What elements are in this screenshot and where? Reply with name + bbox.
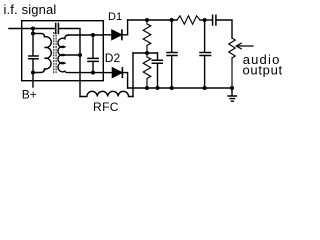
wire i.f. input (9, 28, 55, 30)
node dot rail C6 (203, 86, 207, 90)
wire RFC right riser to midpoint (132, 53, 134, 97)
svg-text:D2: D2 (105, 51, 121, 65)
node dot center tap / C2 (78, 53, 82, 57)
wire secondary center tap (65, 54, 80, 56)
capacitor C6 (204, 20, 206, 52)
wire primary top lead (33, 34, 45, 37)
node dot C3 top (91, 33, 95, 37)
node dot top rail C5 (170, 18, 174, 22)
capacitor C2 coupling (primary top to center tap) (56, 24, 59, 34)
resistor R2 (143, 53, 151, 88)
wire secondary top lead (69, 34, 104, 36)
pot wiper arrow (236, 43, 253, 49)
node dot top rail C6 (203, 18, 207, 22)
capacitor C1 primary tuning (29, 56, 38, 59)
inductor L2 secondary winding (58, 35, 68, 72)
svg-text:B+: B+ (22, 88, 37, 102)
capacitor C4 (157, 53, 159, 60)
node dot primary top wire (31, 27, 35, 31)
diode D1 (103, 34, 112, 36)
capacitor C7 coupling to audio (213, 15, 216, 25)
svg-text:output: output (243, 63, 283, 78)
ground (228, 88, 236, 101)
wire top rail (128, 19, 177, 21)
svg-text:D1: D1 (108, 11, 122, 23)
wire midpoint line (133, 52, 158, 54)
transformer shield box T1 (22, 21, 104, 81)
capacitor C3 secondary tuning (92, 35, 94, 58)
node dot midpoint (145, 51, 149, 55)
node dot rail R2 (145, 86, 149, 90)
wire bottom rail (128, 87, 232, 89)
transformer core (54, 33, 56, 75)
wire C2 to center-tap riser (59, 29, 80, 55)
wire RFC riser from center tap (79, 55, 81, 97)
resistor R1 (143, 20, 151, 53)
node dot rail pot/ground (230, 86, 234, 90)
node dot top rail R1 (145, 18, 149, 22)
node dot rail C5 (170, 86, 174, 90)
wire B+ lead (32, 73, 34, 88)
node dot primary bottom / B+ (31, 71, 35, 75)
node dot primary winding top (31, 32, 35, 36)
potentiometer volume (229, 38, 235, 88)
wire primary branch vertical (32, 29, 34, 56)
wire primary bottom lead (33, 69, 45, 73)
resistor R3 de-emphasis (177, 16, 200, 24)
svg-text:RFC: RFC (93, 100, 119, 114)
inductor L1 primary winding (45, 37, 52, 69)
capacitor C5 (171, 20, 173, 52)
node dot rail C4 (156, 86, 160, 90)
diode D2 (103, 72, 112, 74)
wire secondary bottom lead (65, 71, 104, 72)
svg-text:i.f. signal: i.f. signal (4, 2, 57, 17)
node dot C3 bottom (91, 71, 95, 75)
inductor RFC choke (80, 91, 133, 96)
